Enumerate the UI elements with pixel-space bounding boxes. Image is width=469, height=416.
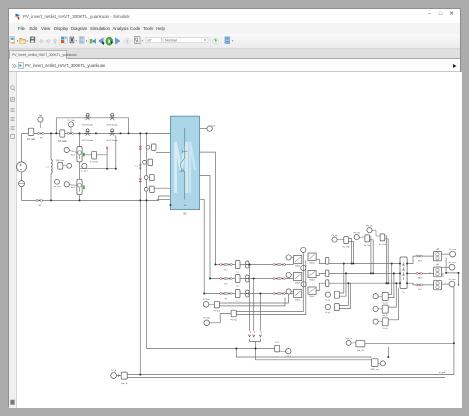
tap ia (249, 265, 251, 330)
svg-text:TO Gate: TO Gate (58, 140, 68, 143)
svg-text:SWa1: SWa1 (295, 266, 301, 268)
svg-text:Vo_Sat: Vo_Sat (53, 185, 60, 188)
svg-text:Va_rms: Va_rms (449, 248, 456, 251)
wire Vdc top out (365, 343, 454, 357)
svg-text:Ra2: Ra2 (418, 260, 423, 262)
config gear icon (70, 37, 75, 44)
wire goto bracket (250, 339, 261, 349)
meter Vdc4 (373, 319, 378, 324)
diode SiC5 (84, 113, 90, 120)
connect icon (90, 38, 96, 44)
svg-text:SiC1: SiC1 (71, 154, 77, 156)
svg-text:gB: gB (436, 264, 439, 266)
svg-text:L1: L1 (46, 167, 49, 169)
svg-text:Vdc_m: Vdc_m (345, 338, 352, 340)
block Ia_meas (334, 291, 339, 298)
wire out row A (329, 263, 400, 265)
wire grid row B (407, 272, 434, 273)
svg-text:Vb_Vbc: Vb_Vbc (364, 245, 371, 247)
port gC (286, 289, 291, 294)
svg-text:L2: L2 (135, 166, 138, 168)
svg-text:SWc1: SWc1 (295, 299, 301, 301)
inductor bus B (146, 133, 148, 348)
wire out row C (329, 282, 400, 284)
inductor bus A (139, 133, 141, 374)
port PV bus (203, 302, 209, 308)
block Ib_meas (334, 304, 339, 311)
svg-text:SWb2: SWb2 (309, 280, 315, 282)
ammeter A1 (19, 181, 25, 187)
wire to bridge in2 (154, 187, 170, 189)
port Vb set (354, 235, 359, 240)
svg-text:IL_Sat: IL_Sat (81, 170, 88, 173)
port gB (286, 272, 291, 277)
resistor Rga (416, 255, 418, 257)
diode SiC2 (109, 129, 115, 136)
scope PLL (286, 349, 291, 354)
block Vb meas (365, 235, 370, 242)
block gate b5 (151, 144, 156, 150)
svg-text:PV Vdc: PV Vdc (203, 317, 210, 319)
grid source GB (434, 267, 442, 277)
breaker SWb1 (294, 272, 302, 280)
svg-text:to_grid: to_grid (439, 371, 446, 374)
resistor Rgc (416, 284, 418, 286)
wire row A (215, 264, 293, 266)
svg-text:Vb_flt: Vb_flt (382, 314, 388, 317)
wire Vb drops (370, 237, 374, 274)
svg-text:PLL: PLL (275, 342, 280, 344)
wire Ia_meas up (339, 264, 346, 297)
step forward icon (115, 38, 120, 44)
wire top row riser (55, 118, 57, 134)
svg-text:Vb_rms: Vb_rms (448, 261, 455, 264)
grid source GA (434, 251, 442, 261)
wire PV B out long (127, 287, 454, 375)
resistor Rc2 (273, 292, 275, 294)
port Ib_grid (325, 304, 330, 309)
svg-text:TO_Sat: TO_Sat (67, 119, 75, 122)
svg-text:Rc: Rc (225, 298, 228, 300)
wire out row B (329, 272, 400, 274)
block TO gate (60, 130, 65, 137)
block Filt2 (382, 305, 388, 313)
wire Vc drops (385, 236, 389, 283)
port PV Vdc (204, 320, 210, 326)
goto arrow ic (259, 335, 261, 337)
wire row C (204, 293, 293, 295)
ground arrow N (457, 284, 459, 286)
svg-text:Vc_rms: Vc_rms (448, 278, 455, 281)
diode SiC1 (84, 129, 90, 136)
resistor R1 (38, 132, 40, 134)
svg-text:SiC2 Diode: SiC2 Diode (107, 140, 119, 142)
svg-text:IL Probe: IL Probe (90, 161, 99, 164)
svg-text:Rb: Rb (225, 283, 229, 285)
goto arrow ia (248, 335, 250, 337)
wire swC out (316, 283, 325, 290)
wire grid row C (407, 283, 434, 285)
port gC2 (301, 282, 306, 287)
wire Filt3 right (388, 288, 398, 319)
svg-text:Vdc: Vdc (39, 115, 44, 117)
resistor Rb1 (220, 277, 222, 279)
block PLL (275, 345, 280, 352)
breaker SWa2 (308, 253, 316, 261)
svg-text:SiC1 Diode: SiC1 Diode (82, 140, 94, 142)
run button (106, 37, 114, 45)
block Vc meas (380, 234, 385, 241)
block Lc1 (235, 290, 240, 298)
block PV Vdc conv (231, 310, 236, 317)
svg-text:Vc_flt: Vc_flt (382, 327, 387, 330)
wire Filt2 up (388, 283, 396, 307)
tap ic (259, 294, 261, 330)
wire Q2 to bottom bus (79, 195, 81, 201)
wire swA out (316, 259, 325, 263)
scope V2 (55, 179, 60, 184)
port Ia_grid (325, 292, 330, 297)
wire neutral (443, 258, 459, 284)
wire bus mid (236, 349, 371, 358)
svg-text:SWb1: SWb1 (295, 283, 301, 285)
svg-text:gA: gA (436, 248, 439, 251)
sim stop time field (146, 37, 162, 42)
resistor Rgb (416, 272, 418, 274)
wire PV Vdc out (236, 253, 305, 315)
meter Vdc2 (373, 294, 378, 299)
block Ga (326, 258, 329, 265)
scope FB (67, 163, 72, 168)
open folder icon (20, 38, 28, 43)
wire Ib_meas up (339, 283, 350, 308)
block Filt3 (382, 318, 388, 326)
meter Vdc3 (373, 306, 378, 311)
nav arrows (disabled) (39, 39, 43, 43)
block Gc (326, 280, 329, 287)
wire grid row A (407, 256, 434, 263)
wire dc bus top (22, 132, 171, 134)
block Gb (326, 270, 329, 277)
breaker SWc2 (308, 287, 316, 294)
block current probe (92, 151, 97, 159)
port gA (286, 255, 291, 260)
wire swB out (316, 273, 325, 275)
scope TO (68, 122, 73, 127)
svg-text:Va_Vab: Va_Vab (343, 247, 351, 249)
svg-text:R2: R2 (39, 205, 43, 207)
wire PV B out 2 (127, 377, 445, 379)
block PV B (121, 372, 127, 379)
scope Vdc (38, 117, 43, 122)
svg-text:La: La (237, 272, 240, 274)
svg-text:Ib_gr: Ib_gr (326, 312, 331, 314)
svg-text:SiC5 Diode: SiC5 Diode (82, 124, 94, 126)
port PV B (111, 373, 117, 379)
resistor Ra2 (273, 263, 275, 265)
inductor L1 (50, 133, 52, 200)
svg-text:PV bus: PV bus (214, 311, 221, 313)
svg-text:Vdc_filt: Vdc_filt (357, 349, 364, 352)
mosfet Q1 (79, 133, 81, 146)
block gate b8 (150, 186, 155, 192)
scope IL (82, 163, 87, 168)
resistor R3 (67, 132, 69, 134)
library browser icon (61, 37, 67, 44)
block TO gate2 (58, 163, 63, 170)
svg-text:Vdc_B: Vdc_B (121, 383, 128, 385)
svg-text:Vc_Vca: Vc_Vca (379, 244, 387, 246)
block PV bus conv (214, 301, 219, 308)
svg-text:FB Gate: FB Gate (56, 159, 65, 162)
svg-text:Lc: Lc (237, 301, 239, 303)
resistor Rc1 (220, 292, 222, 294)
svg-text:Vd_Sat: Vd_Sat (27, 138, 35, 141)
wire Filt1 up (388, 264, 394, 298)
tap ib (253, 279, 255, 330)
wire phase A drop (200, 152, 216, 264)
diode SiC6 (109, 113, 115, 120)
resistor R2 (36, 199, 38, 201)
block La1 (235, 261, 240, 269)
port gate Q2 (64, 182, 69, 187)
block Filt1 (382, 292, 388, 300)
block gate b6 (148, 159, 153, 165)
svg-text:PV bus: PV bus (203, 299, 210, 301)
model advisor icon (135, 37, 140, 44)
port gA2 (301, 247, 306, 252)
scope VgA (441, 253, 449, 255)
wire row B (210, 278, 294, 280)
port Va set (332, 237, 337, 242)
meter Ic (246, 290, 250, 294)
transformer T1 (400, 257, 407, 288)
breaker SWb2 (308, 271, 316, 278)
breaker SWc1 (294, 289, 302, 297)
grid source GC (434, 280, 442, 290)
block Vdc top (356, 340, 365, 347)
svg-text:R1: R1 (40, 138, 44, 140)
scope Vdc top (346, 340, 351, 345)
build icon (225, 37, 230, 44)
meter Ib (246, 275, 250, 279)
wire mid horizontal (80, 168, 116, 170)
svg-text:Rc2: Rc2 (418, 289, 422, 291)
meter Ia (246, 261, 250, 265)
wire to bridge in3 (157, 198, 171, 200)
new model icon (10, 37, 18, 45)
svg-text:Vab: Vab (212, 125, 217, 127)
svg-text:PV Vdc: PV Vdc (230, 319, 237, 321)
junction dots (50, 132, 52, 134)
igbt symbol inside U1 (184, 128, 186, 200)
port Vab scope (200, 128, 207, 130)
refresh icon (213, 38, 219, 44)
svg-text:SWa2: SWa2 (309, 263, 315, 265)
wire Va drops (348, 239, 353, 264)
port Vc set (367, 228, 372, 233)
svg-text:Rb2: Rb2 (418, 278, 423, 280)
wire PV Vdc in (210, 314, 232, 323)
svg-text:Tz: Tz (402, 292, 404, 294)
block Vdc sense (28, 128, 34, 135)
wire left vertical bus (21, 133, 23, 200)
goto arrow ib (253, 335, 255, 337)
port gB2 (301, 265, 306, 270)
scope SPLL (380, 361, 385, 366)
wire to bridge in1 (156, 152, 171, 154)
wire phase B drop (200, 176, 211, 279)
svg-text:PV_Vc: PV_Vc (366, 225, 372, 227)
step back icon (99, 38, 105, 45)
block Va meas (344, 237, 349, 244)
resistor Ra1 (220, 263, 222, 265)
wire PV bus out (220, 294, 289, 306)
port gate Q1 (64, 147, 69, 152)
subsystem U1 IGBT bridge (selected) (171, 116, 200, 209)
svg-text:SiC2: SiC2 (71, 187, 77, 189)
svg-text:PV_Va: PV_Va (331, 235, 338, 237)
wire phase C drop (200, 199, 205, 293)
wire riser d2 (115, 136, 117, 169)
scope VgC (441, 283, 449, 285)
block gate b7 (150, 174, 155, 180)
wire Q1-Q2 (79, 162, 81, 179)
svg-text:Ra: Ra (225, 269, 229, 271)
svg-text:SWc2: SWc2 (309, 296, 315, 298)
svg-text:SiC6 Diode: SiC6 Diode (107, 124, 119, 126)
svg-text:Ia_gr: Ia_gr (326, 300, 331, 302)
wire bus mid2 (256, 349, 372, 360)
mosfet Q2 (77, 179, 82, 194)
scope VgB (441, 266, 449, 268)
wire top diode row (56, 118, 128, 134)
breaker SWa1 (294, 256, 302, 264)
stop icon (disabled) (124, 38, 130, 44)
wire dc link to PLL (147, 348, 275, 350)
resistor Rb2 (273, 277, 275, 279)
wire dc bus bottom (22, 196, 171, 200)
block Lb1 (235, 275, 240, 283)
svg-text:PV_Vb: PV_Vb (353, 232, 360, 234)
svg-text:Lb: Lb (237, 286, 240, 288)
voltage source V1 (17, 162, 27, 172)
mode combo (163, 37, 208, 42)
wire riser d1 (106, 149, 108, 169)
model browser list icon (79, 37, 84, 44)
svg-text:SPLL out: SPLL out (370, 368, 379, 371)
svg-text:SiC: SiC (183, 213, 187, 216)
save icon (30, 37, 35, 43)
block SPLL (372, 359, 379, 367)
svg-text:PV_B: PV_B (111, 370, 117, 372)
svg-text:Va_flt: Va_flt (383, 301, 388, 304)
